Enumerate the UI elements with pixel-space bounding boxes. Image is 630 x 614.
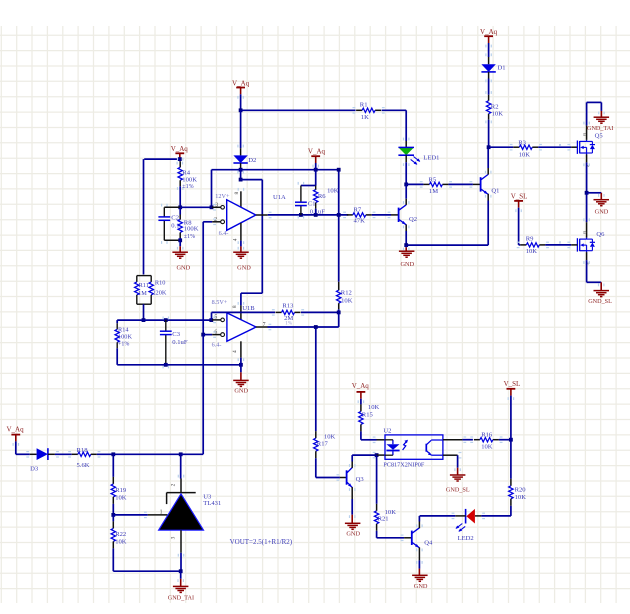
svg-text:R10: R10 (155, 280, 166, 287)
svg-text:5.6K: 5.6K (77, 462, 90, 469)
svg-text:V_Aq: V_Aq (171, 145, 189, 153)
svg-text:GND_TAI: GND_TAI (587, 125, 613, 132)
svg-text:GND: GND (595, 208, 609, 215)
svg-text:R15: R15 (362, 412, 374, 419)
svg-text:8.5V+: 8.5V+ (212, 299, 228, 306)
svg-text:R20: R20 (515, 487, 527, 494)
svg-text:GND: GND (234, 388, 248, 395)
svg-text:100K: 100K (182, 177, 197, 184)
svg-text:1%: 1% (285, 321, 293, 327)
svg-text:GND: GND (346, 530, 360, 537)
svg-text:R16: R16 (481, 432, 493, 439)
svg-text:3: 3 (215, 202, 218, 208)
svg-text:PC817X2NIP0F: PC817X2NIP0F (383, 462, 424, 469)
svg-text:1M: 1M (429, 188, 438, 195)
svg-text:10K: 10K (327, 187, 339, 194)
svg-text:R14: R14 (118, 327, 129, 334)
svg-text:R4: R4 (182, 169, 190, 176)
svg-text:R3: R3 (518, 140, 526, 147)
svg-text:R13: R13 (282, 303, 294, 310)
svg-text:V_Aq: V_Aq (308, 148, 326, 156)
svg-text:GND_TAI: GND_TAI (168, 594, 194, 601)
svg-text:10K: 10K (519, 152, 531, 159)
svg-text:TL431: TL431 (203, 500, 221, 507)
svg-text:Q5: Q5 (595, 133, 604, 140)
svg-text:8: 8 (234, 192, 240, 195)
svg-text:V_SL: V_SL (504, 380, 521, 388)
svg-text:6.4-: 6.4- (219, 230, 229, 237)
svg-text:10K: 10K (324, 434, 336, 441)
svg-text:GND: GND (414, 583, 428, 590)
svg-text:8: 8 (232, 305, 238, 308)
svg-text:R5: R5 (429, 176, 437, 183)
svg-text:4: 4 (232, 350, 238, 353)
svg-text:12V+: 12V+ (215, 193, 230, 200)
svg-text:LED2: LED2 (458, 535, 474, 542)
svg-text:R7: R7 (354, 207, 362, 214)
svg-text:R2: R2 (491, 103, 499, 110)
svg-text:GND_SL: GND_SL (588, 298, 612, 305)
svg-text:R22: R22 (115, 531, 126, 538)
svg-text:LED1: LED1 (423, 155, 439, 162)
svg-text:0.1: 0.1 (171, 222, 179, 229)
svg-text:V_Aq: V_Aq (480, 28, 498, 36)
svg-text:220K: 220K (152, 290, 166, 297)
svg-text:R6: R6 (318, 193, 326, 200)
svg-text:R1: R1 (360, 102, 368, 109)
svg-text:R18: R18 (77, 447, 89, 454)
svg-text:U1B: U1B (242, 305, 255, 312)
svg-text:R17: R17 (317, 441, 329, 448)
svg-text:GND: GND (237, 264, 251, 271)
svg-text:R19: R19 (115, 487, 127, 494)
svg-text:GND_SL: GND_SL (446, 486, 470, 493)
svg-text:10K: 10K (481, 444, 493, 451)
svg-text:Q4: Q4 (424, 540, 433, 547)
svg-text:R9: R9 (526, 236, 534, 243)
svg-text:D3: D3 (30, 465, 39, 472)
svg-text:Q2: Q2 (409, 216, 417, 223)
svg-text:10K: 10K (492, 110, 504, 117)
svg-text:GND: GND (176, 264, 190, 271)
svg-text:U2: U2 (383, 428, 391, 435)
svg-text:6.4-: 6.4- (212, 341, 222, 348)
svg-text:V_Aq: V_Aq (232, 79, 250, 87)
svg-text:R12: R12 (341, 290, 352, 297)
svg-text:2: 2 (171, 483, 177, 486)
svg-text:7: 7 (263, 322, 266, 328)
svg-text:C1: C1 (308, 201, 316, 208)
svg-text:10K: 10K (368, 404, 380, 411)
svg-text:10K: 10K (115, 495, 127, 502)
svg-text:±1%: ±1% (182, 184, 193, 190)
svg-text:4: 4 (233, 238, 239, 241)
svg-text:100K: 100K (184, 226, 199, 233)
svg-text:0.1uF: 0.1uF (172, 339, 188, 346)
svg-text:V_SL: V_SL (511, 192, 528, 200)
svg-text:3: 3 (171, 536, 177, 539)
svg-text:n: n (559, 240, 562, 245)
svg-text:VOUT=2.5(1+R1/R2): VOUT=2.5(1+R1/R2) (230, 538, 293, 546)
svg-text:V_Aq: V_Aq (352, 382, 370, 390)
svg-text:10K: 10K (115, 539, 127, 546)
svg-text:1K: 1K (361, 114, 369, 121)
svg-text:47K: 47K (354, 217, 366, 224)
svg-text:10K: 10K (526, 248, 538, 255)
svg-text:100K: 100K (118, 334, 132, 341)
svg-text:R11: R11 (139, 282, 149, 289)
svg-text:U1A: U1A (273, 194, 286, 201)
svg-text:V_Aq: V_Aq (7, 425, 25, 433)
svg-text:GND: GND (400, 261, 414, 268)
svg-text:C3: C3 (172, 331, 180, 338)
svg-text:1: 1 (160, 509, 163, 515)
svg-text:D1: D1 (498, 65, 506, 72)
svg-text:D2: D2 (248, 157, 256, 164)
svg-text:Q1: Q1 (491, 187, 499, 194)
svg-text:10K: 10K (515, 494, 527, 501)
svg-text:R21: R21 (378, 516, 389, 523)
svg-text:10K: 10K (341, 297, 353, 304)
svg-text:+1%: +1% (118, 342, 129, 348)
svg-text:0.1uF: 0.1uF (310, 208, 326, 215)
svg-text:Q6: Q6 (596, 231, 605, 238)
svg-text:1M: 1M (138, 290, 147, 297)
svg-text:Q3: Q3 (356, 476, 365, 483)
svg-text:±1%: ±1% (184, 234, 195, 240)
